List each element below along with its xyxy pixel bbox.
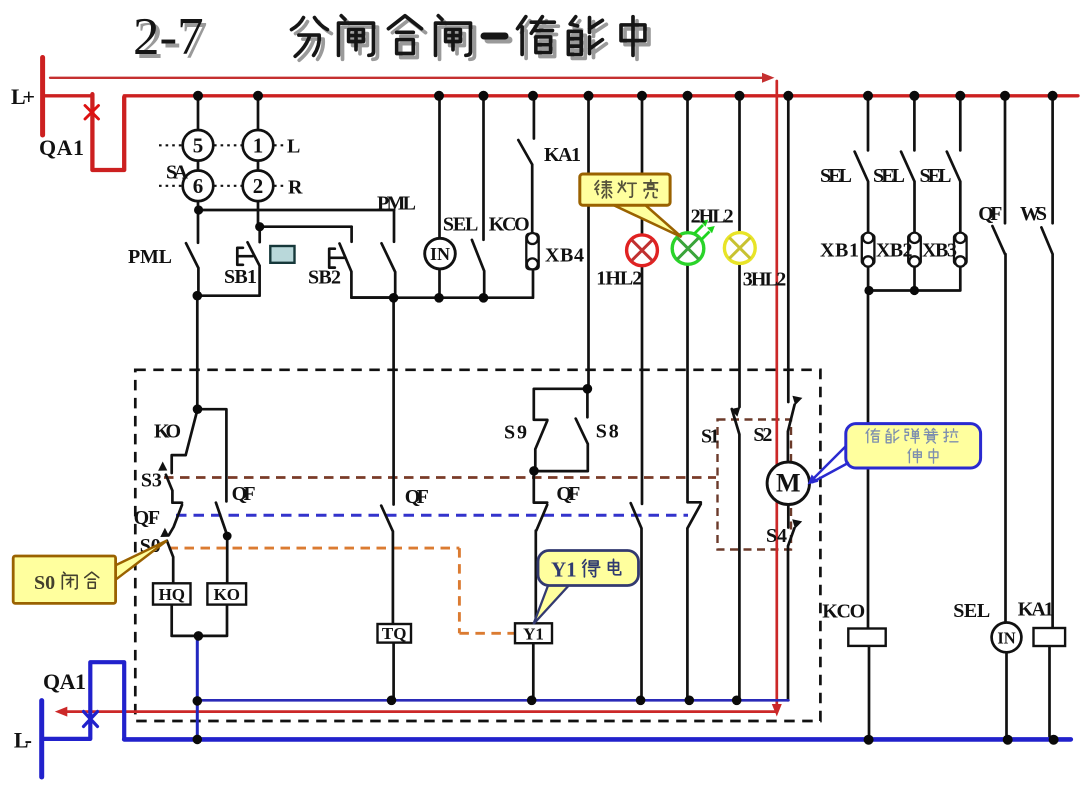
svg-text:PML: PML xyxy=(128,246,172,268)
svg-text:1: 1 xyxy=(253,134,264,158)
svg-text:S1: S1 xyxy=(701,426,720,448)
svg-text:SEL: SEL xyxy=(953,600,990,622)
svg-text:QF: QF xyxy=(134,507,161,529)
svg-text:KA1: KA1 xyxy=(544,144,581,166)
svg-text:IN: IN xyxy=(430,244,450,264)
svg-text:5: 5 xyxy=(193,134,204,158)
svg-text:SB2: SB2 xyxy=(308,267,341,289)
svg-text:WS: WS xyxy=(1020,203,1047,225)
svg-text:PML: PML xyxy=(377,193,416,215)
svg-text:QF: QF xyxy=(556,483,580,505)
svg-text:KCO: KCO xyxy=(822,601,865,623)
svg-text:1HL2: 1HL2 xyxy=(596,268,642,290)
svg-text:R: R xyxy=(288,177,303,199)
svg-text:S4: S4 xyxy=(766,525,787,547)
svg-text:KO: KO xyxy=(214,585,240,604)
svg-text:L+: L+ xyxy=(11,84,35,109)
svg-text:SEL: SEL xyxy=(443,214,479,236)
svg-text:XB1: XB1 xyxy=(820,240,859,262)
svg-text:KO: KO xyxy=(154,421,181,443)
svg-text:HQ: HQ xyxy=(159,585,185,604)
svg-text:SA: SA xyxy=(166,162,189,184)
svg-text:SB1: SB1 xyxy=(224,266,257,288)
svg-text:2-7: 2-7 xyxy=(133,8,204,66)
svg-text:L: L xyxy=(287,136,300,158)
svg-text:XB4: XB4 xyxy=(545,245,584,267)
svg-text:QF: QF xyxy=(405,486,429,508)
svg-text:KCO: KCO xyxy=(489,214,530,236)
svg-text:Y1: Y1 xyxy=(551,558,577,582)
svg-text:2HL2: 2HL2 xyxy=(691,206,734,228)
svg-text:L-: L- xyxy=(14,728,32,753)
svg-text:S2: S2 xyxy=(753,424,772,446)
svg-text:QA1: QA1 xyxy=(39,135,84,160)
svg-text:XB3: XB3 xyxy=(922,240,957,262)
svg-text:Y1: Y1 xyxy=(523,625,544,644)
svg-text:SEL: SEL xyxy=(920,165,952,187)
svg-text:SEL: SEL xyxy=(873,165,905,187)
svg-text:QF: QF xyxy=(232,483,256,505)
svg-text:SEL: SEL xyxy=(820,165,852,187)
svg-text:S0: S0 xyxy=(34,572,55,594)
svg-text:IN: IN xyxy=(997,628,1015,647)
svg-text:M: M xyxy=(776,469,801,498)
svg-text:S3: S3 xyxy=(141,470,162,492)
svg-text:QF: QF xyxy=(978,203,1002,225)
svg-text:6: 6 xyxy=(193,174,204,198)
svg-text:QA1: QA1 xyxy=(43,669,86,694)
svg-text:TQ: TQ xyxy=(382,624,407,643)
svg-text:2: 2 xyxy=(253,174,264,198)
svg-text:3HL2: 3HL2 xyxy=(743,269,787,291)
svg-text:KA1: KA1 xyxy=(1018,599,1054,621)
svg-text:XB2: XB2 xyxy=(876,240,913,262)
